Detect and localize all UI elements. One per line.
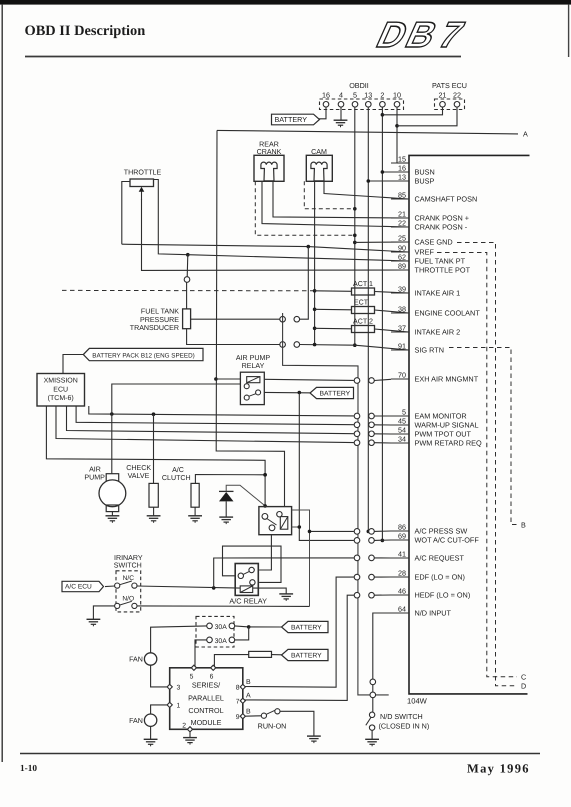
svg-text:CHECK: CHECK — [126, 464, 151, 472]
wire run-on to ground — [280, 711, 314, 736]
wire a/c ecu to n/c — [105, 585, 115, 588]
header rule — [25, 56, 461, 58]
svg-text:SERIES/: SERIES/ — [192, 681, 220, 690]
svg-text:ECU: ECU — [53, 386, 68, 393]
svg-text:N/D SWITCH: N/D SWITCH — [380, 712, 423, 721]
ECU connector box — [409, 155, 530, 694]
wire net A left vertical — [216, 130, 284, 506]
PATS ECU pin circles — [440, 102, 460, 108]
wire fan2 to ground — [150, 726, 152, 739]
wire edf to ECU 28 — [374, 576, 391, 578]
ground (diode) — [219, 517, 233, 524]
date May 1996 — [467, 762, 530, 776]
wire OBDII pin10 vertical — [396, 107, 398, 163]
run-on switch — [261, 709, 280, 719]
wire cam + to ECU 85 — [324, 181, 409, 199]
ECU pin 90 VREF — [391, 243, 435, 256]
svg-text:A/C PRESS SW: A/C PRESS SW — [415, 527, 468, 536]
svg-text:41: 41 — [398, 549, 406, 558]
junction check valve feed — [152, 412, 156, 416]
air pump relay box — [240, 372, 264, 404]
wire r1 riser to relay switch — [112, 384, 241, 414]
battery flag (air pump relay) — [310, 387, 354, 398]
wire transducer bottom to sig rtn — [187, 329, 280, 345]
wire warm-up to ECU 45 — [374, 424, 391, 426]
wire relay2 out lower — [292, 526, 300, 528]
wire diode to ground — [225, 501, 227, 516]
wire relay switched output — [264, 391, 317, 394]
wire OBDII pin4 to ground — [340, 107, 342, 120]
check valve body — [149, 483, 158, 507]
svg-text:SWITCH: SWITCH — [114, 562, 142, 570]
svg-text:ENGINE COOLANT: ENGINE COOLANT — [415, 309, 481, 318]
wire exh air to ECU 70 — [374, 379, 391, 380]
module pin 8 marker — [236, 684, 246, 691]
relay2 contacts — [262, 514, 277, 531]
ECU pin 91 SIG RTN — [391, 341, 444, 354]
svg-text:7: 7 — [236, 699, 240, 706]
svg-text:5: 5 — [402, 407, 406, 416]
module pin 3 marker — [167, 684, 180, 691]
wire pwm retard to ECU 34 — [374, 442, 391, 444]
svg-text:OBD II Description: OBD II Description — [25, 23, 146, 39]
PATS ECU dashed outline — [435, 99, 465, 110]
ECU pin 34 PWM RETARD REQ — [391, 434, 482, 447]
ECU pin 37 INTAKE AIR 2 — [391, 323, 460, 336]
fuse 30A lower — [207, 637, 235, 645]
svg-text:21: 21 — [398, 209, 406, 218]
rear crank shield dashed — [255, 181, 354, 235]
connector pair pwm retard — [354, 440, 374, 446]
svg-text:16: 16 — [322, 91, 330, 100]
svg-text:N/C: N/C — [123, 575, 135, 582]
junction relay out — [298, 391, 302, 395]
irinary switch dashed box — [116, 571, 141, 612]
connector pair wot — [354, 538, 374, 544]
ECU pin 28 EDF (LO = ON) — [391, 568, 465, 581]
wire net A horizontal — [217, 130, 518, 134]
wire OBDII pin13 vertical — [367, 107, 369, 531]
svg-text:CONTROL: CONTROL — [188, 706, 223, 715]
svg-text:PWM RETARD REQ: PWM RETARD REQ — [415, 439, 482, 448]
node B label — [521, 520, 526, 529]
wire case gnd to ECU 25 — [355, 241, 409, 243]
relay2 box — [259, 507, 292, 535]
svg-text:13: 13 — [364, 91, 372, 100]
wire act1 left — [315, 290, 352, 293]
xmission ecu label — [44, 378, 78, 403]
air pump relay label — [236, 354, 271, 370]
fuse dashed box — [196, 616, 234, 647]
svg-text:INTAKE AIR 1: INTAKE AIR 1 — [415, 289, 461, 298]
dashed net CASE GND to D — [457, 243, 517, 686]
junction pin2 to WOT row — [381, 539, 385, 543]
wire busn to ECU 16 — [382, 171, 409, 173]
connector n/d junction — [370, 692, 376, 698]
svg-text:EDF (LO = ON): EDF (LO = ON) — [415, 573, 465, 582]
wire relay2 out upper riser — [292, 510, 310, 606]
svg-text:30A: 30A — [215, 624, 228, 631]
wire pin10 to ECU 15 — [397, 162, 409, 164]
svg-text:CRANK POSN +: CRANK POSN + — [415, 214, 470, 223]
wire fan2 top to module pin1 — [151, 705, 170, 714]
cam sensor label — [311, 148, 327, 156]
svg-text:CAMSHAFT POSN: CAMSHAFT POSN — [415, 195, 478, 204]
ECU pin 15 — [391, 154, 409, 163]
module pin 7 marker — [236, 698, 246, 705]
wire trinary to ac request row — [214, 558, 354, 588]
svg-text:VALVE: VALVE — [128, 472, 150, 480]
wire air pump feed — [111, 414, 113, 474]
node B label (module pin8) — [246, 679, 251, 686]
wire n/d switch to ground — [371, 730, 373, 739]
a/c relay contacts — [238, 567, 255, 585]
wire hedf to ECU 46 — [374, 594, 391, 596]
ECU pin 69 WOT A/C CUT-OFF — [391, 531, 479, 544]
svg-text:PWM TPOT OUT: PWM TPOT OUT — [415, 430, 472, 439]
wire n/o right to relay2 riser — [137, 605, 309, 608]
wire module pin2 to ground — [189, 732, 191, 738]
wire EAM monitor to ECU 5 — [374, 415, 391, 417]
svg-text:22: 22 — [398, 218, 406, 227]
battery flag (fans) — [282, 621, 329, 632]
fan 1 motor — [144, 653, 156, 665]
battery flag (module) — [282, 649, 329, 660]
wire net B to edf row — [243, 577, 354, 687]
junction busp/pin13 — [367, 179, 371, 183]
wire net A to hedf row — [243, 595, 354, 700]
svg-text:PATS ECU: PATS ECU — [432, 81, 467, 90]
junction fuel-tank-pt — [186, 253, 190, 257]
fan 2 motor — [144, 714, 156, 726]
n/c switch — [115, 581, 137, 588]
resistor ECT — [352, 307, 375, 314]
eng speed dashed wire — [62, 289, 315, 291]
svg-text:MODULE: MODULE — [191, 718, 222, 727]
connector pair warm-up — [354, 422, 374, 428]
resistor ACT 2 — [352, 326, 375, 333]
battery flag (OBDII pin 16) — [272, 114, 320, 125]
junction relay coil / net A — [214, 377, 218, 381]
svg-text:XMISSION: XMISSION — [44, 378, 78, 385]
rear crank sensor label — [257, 141, 282, 157]
module pin 6 marker — [210, 665, 216, 680]
svg-text:BATTERY: BATTERY — [320, 391, 351, 398]
svg-text:64: 64 — [398, 604, 406, 613]
junction fuse outputs — [247, 625, 251, 629]
junction case-gnd/pin5 — [353, 241, 357, 245]
node A label (module) — [246, 692, 251, 699]
page number 1-10 — [20, 764, 37, 774]
connector transducer top — [184, 277, 190, 283]
PATS ECU label — [432, 81, 467, 90]
resistor ACT 1 — [352, 288, 375, 295]
wire check valve to ground — [153, 507, 155, 515]
footer rule — [20, 753, 540, 755]
svg-text:1: 1 — [177, 703, 181, 710]
ECU pin 5 EAM MONITOR — [391, 407, 467, 420]
ground (fan 2) — [144, 739, 158, 746]
ECU pin 25 CASE GND — [391, 233, 453, 246]
ECU pin 21 CRANK POSN + — [391, 209, 469, 222]
run-on label — [258, 721, 287, 730]
svg-text:9: 9 — [236, 714, 240, 721]
svg-text:2: 2 — [182, 723, 186, 730]
irinary switch label — [114, 554, 143, 570]
svg-text:BATTERY: BATTERY — [291, 625, 322, 632]
wire bus r6 to relay2 — [46, 406, 265, 506]
connector pair sig rtn — [280, 342, 300, 348]
svg-text:FAN: FAN — [129, 656, 143, 664]
wire fusible link left to module pin6 — [214, 655, 248, 668]
ground (check valve) — [147, 516, 161, 523]
ground (run-on) — [307, 736, 321, 743]
n/d switch label — [379, 712, 430, 730]
svg-text:A/C RELAY: A/C RELAY — [229, 596, 267, 605]
diode suppression — [219, 491, 234, 501]
ECU pin 89 THROTTLE POT — [391, 261, 471, 274]
junction air pump feed — [110, 412, 114, 416]
n/o switch — [115, 601, 137, 608]
svg-text:6: 6 — [210, 673, 214, 680]
svg-text:10: 10 — [393, 91, 401, 100]
ECU pin 64 N/D INPUT — [391, 604, 452, 617]
fuse 30A upper — [207, 623, 235, 631]
svg-text:BATTERY: BATTERY — [291, 653, 322, 660]
module text — [188, 681, 224, 727]
svg-text:4: 4 — [339, 91, 343, 100]
xmission ecu box — [37, 374, 85, 407]
OBDII pin circles — [323, 102, 400, 108]
wire act1 right to ECU 39 — [375, 292, 410, 294]
svg-text:INTAKE AIR 2: INTAKE AIR 2 — [415, 328, 461, 337]
svg-text:1-10: 1-10 — [20, 764, 37, 774]
ground (OBDII pin 4) — [334, 120, 348, 127]
fusible link — [249, 651, 272, 657]
page right border line — [568, 5, 570, 57]
svg-text:28: 28 — [398, 568, 406, 577]
wire OBDII pin5 signal-ground vertical — [354, 107, 356, 345]
wire bus EAM monitor — [89, 406, 354, 416]
wire ac press to ECU 86 — [374, 530, 391, 532]
n/c contact label — [123, 575, 135, 582]
junction pats21/pin2 — [381, 113, 385, 117]
resistor ACT 2 label — [353, 318, 373, 326]
svg-text:WARM-UP SIGNAL: WARM-UP SIGNAL — [415, 421, 479, 430]
fan 1 label — [129, 656, 143, 664]
rear crank sensor box — [254, 155, 284, 181]
svg-text:2: 2 — [380, 91, 384, 100]
wire transducer supply left — [191, 318, 294, 320]
node D label — [521, 682, 526, 691]
wire fuel tank pt row to ECU 62 — [188, 255, 409, 261]
svg-text:ECT: ECT — [354, 299, 369, 307]
svg-text:RUN-ON: RUN-ON — [258, 721, 287, 730]
svg-text:TRANSDUCER: TRANSDUCER — [130, 324, 179, 332]
cam sensor plug glyph — [311, 162, 327, 181]
ECU pin 39 INTAKE AIR 1 — [391, 284, 460, 297]
junction pin13 to A/C press row — [367, 530, 371, 534]
junction ect/cam ground — [313, 308, 317, 312]
wire battery pack to xmission ecu — [63, 355, 84, 374]
cam sensor box — [306, 155, 332, 181]
svg-text:(TCM-6): (TCM-6) — [48, 394, 74, 402]
svg-text:A: A — [246, 692, 251, 699]
n/o contact label — [122, 596, 134, 603]
wire ac press row — [310, 530, 354, 532]
junction act1/cam ground — [313, 289, 317, 293]
air pump label — [84, 466, 105, 482]
OBDII connector label — [349, 81, 369, 90]
ground (n/d switch) — [365, 739, 379, 746]
wire vref branch to transducer — [299, 247, 308, 320]
wire rear crank + to ECU 21 — [273, 181, 409, 218]
svg-text:(CLOSED IN N): (CLOSED IN N) — [379, 722, 430, 731]
junction sigrtn/pin5 — [353, 343, 357, 347]
module pin 9 marker — [236, 714, 246, 721]
cam shield dashed — [304, 181, 355, 209]
wire diode top — [226, 485, 265, 506]
resistor ACT 1 label — [353, 280, 373, 288]
wire fuse2 left to module pin5 — [195, 640, 207, 668]
ground (air pump) — [106, 516, 120, 523]
ECU pin 41 A/C REQUEST — [391, 549, 465, 562]
svg-text:54: 54 — [398, 425, 406, 434]
air pump relay contacts — [244, 384, 260, 400]
svg-text:25: 25 — [398, 233, 406, 242]
ECU pin 38 ENGINE COOLANT — [391, 304, 480, 317]
a/c relay coil — [240, 586, 253, 593]
module pin 5 marker — [190, 665, 197, 680]
svg-text:A/C ECU: A/C ECU — [65, 584, 92, 591]
a/c relay contact loop wire — [223, 546, 282, 582]
svg-text:PUMP: PUMP — [84, 474, 105, 482]
wire act2 right to ECU 37 — [375, 329, 410, 332]
wire air pump to ground — [111, 512, 113, 516]
PATS ECU pin numbers 21 22 — [439, 91, 462, 100]
svg-text:OBDII: OBDII — [349, 81, 369, 90]
a/c ecu flag — [62, 581, 104, 591]
wire throttle wiper to ECU 89 — [142, 199, 410, 270]
svg-text:THROTTLE POT: THROTTLE POT — [415, 266, 471, 275]
junction relay2 top — [263, 504, 267, 508]
svg-text:N/O: N/O — [122, 596, 134, 603]
OBDII connector dashed outline — [320, 99, 404, 110]
svg-text:5: 5 — [190, 673, 194, 680]
svg-text:C: C — [521, 673, 526, 682]
svg-text:ACT 2: ACT 2 — [353, 318, 373, 326]
svg-text:A: A — [523, 130, 528, 139]
n/d switch — [366, 712, 375, 730]
ECU pin 85 CAMSHAFT POSN — [391, 190, 477, 203]
wire throttle left terminal — [122, 182, 130, 245]
svg-text:34: 34 — [398, 434, 406, 443]
air pump relay coil — [247, 377, 260, 383]
svg-text:22: 22 — [453, 91, 461, 100]
junction vref/transducer-supply — [307, 245, 311, 249]
svg-text:FUEL TANK PT: FUEL TANK PT — [415, 257, 466, 266]
wire n/o to ground — [93, 606, 114, 619]
module pin 1 marker — [167, 702, 180, 709]
a/c clutch coil body — [191, 483, 199, 507]
svg-text:13: 13 — [398, 172, 406, 181]
svg-text:N/D INPUT: N/D INPUT — [415, 609, 452, 618]
series/parallel control module box — [170, 668, 243, 730]
connector pair exh air — [354, 378, 374, 384]
svg-text:CRANK POSN -: CRANK POSN - — [415, 223, 468, 232]
wire n/c to a/c relay coil — [137, 586, 240, 588]
svg-text:BUSP: BUSP — [415, 177, 435, 186]
svg-text:70: 70 — [398, 370, 406, 379]
junction n/c / trinary riser — [212, 586, 216, 590]
wire n/d junction to switch — [372, 698, 374, 712]
ground (a/c relay) — [279, 594, 293, 601]
connector n/d input — [370, 679, 376, 685]
svg-text:BUSN: BUSN — [415, 168, 435, 177]
svg-text:69: 69 — [398, 531, 406, 540]
wire cam - sig rtn vertical — [314, 181, 316, 344]
svg-text:EXH AIR MNGMNT: EXH AIR MNGMNT — [415, 375, 479, 384]
svg-text:46: 46 — [398, 586, 406, 595]
wire bus warm-up — [76, 406, 354, 425]
ECU pin 45 WARM-UP SIGNAL — [391, 416, 479, 429]
connector pair ac press — [354, 529, 374, 535]
a/c relay label — [229, 596, 267, 605]
throttle label — [124, 169, 162, 177]
dashed net VREF to C — [437, 253, 517, 677]
wire fuse1 left to fan1 — [151, 626, 207, 653]
wire n/d to junction — [372, 685, 374, 692]
svg-text:B: B — [246, 709, 251, 716]
connector pair EAM monitor — [354, 413, 374, 419]
wire pwm tpot to ECU 54 — [374, 433, 391, 435]
wire vref row to ECU 90 — [122, 244, 409, 252]
svg-text:PRESSURE: PRESSURE — [140, 316, 179, 324]
ECU pin 62 FUEL TANK PT — [391, 252, 466, 265]
wire a/c clutch to ground — [194, 507, 196, 515]
harness boundary line — [283, 313, 389, 695]
throttle potentiometer body — [130, 179, 154, 187]
DB7 logo — [370, 14, 470, 55]
wire a/c clutch feed — [195, 475, 265, 484]
ECU pin 70 EXH AIR MNGMNT — [391, 370, 479, 383]
ground (a/c clutch) — [188, 516, 202, 523]
wire rear crank - to ECU 22 — [262, 181, 409, 227]
OBDII pin numbers 16 4 5 13 2 10 — [322, 91, 401, 100]
svg-text:B: B — [521, 520, 526, 529]
svg-text:CLUTCH: CLUTCH — [162, 474, 191, 482]
fuel tank pressure transducer body — [183, 309, 191, 329]
svg-text:ACT 1: ACT 1 — [353, 280, 373, 288]
fuel tank pressure transducer label — [130, 307, 180, 332]
svg-text:FAN: FAN — [129, 717, 143, 725]
resistor ECT label — [354, 299, 369, 307]
svg-text:VREF: VREF — [415, 248, 435, 257]
wire throttle right terminal — [154, 180, 188, 255]
wire ect right to ECU 38 — [375, 310, 410, 313]
svg-text:AIR: AIR — [89, 466, 101, 474]
wire busp to ECU 13 — [368, 180, 409, 182]
svg-text:BATTERY: BATTERY — [275, 115, 308, 124]
wire net A to relay coil — [216, 378, 241, 380]
throttle wiper arrow — [139, 187, 145, 200]
ECU harness label 104W — [407, 697, 428, 706]
svg-text:45: 45 — [398, 416, 406, 425]
svg-text:BATTERY PACK B12 (ENG SPEED): BATTERY PACK B12 (ENG SPEED) — [92, 353, 194, 360]
svg-text:15: 15 — [398, 154, 406, 163]
wire a/c relay coil to ground — [253, 588, 287, 594]
svg-text:EAM MONITOR: EAM MONITOR — [415, 412, 467, 421]
